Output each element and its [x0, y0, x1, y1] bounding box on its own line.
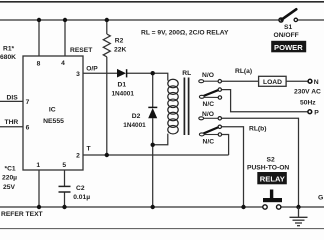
node junction ground rail earth: [296, 205, 300, 209]
relay coil RL: [168, 70, 191, 135]
node junction coil bottom D2: [151, 143, 155, 147]
svg-text:IC: IC: [49, 107, 56, 114]
label 230V AC 50Hz: [294, 89, 321, 107]
load box: [259, 76, 287, 86]
wire pin 5 to C2: [64, 170, 66, 186]
wire top +9V rail left segment: [0, 19, 279, 21]
svg-text:1: 1: [36, 162, 40, 169]
label R1 680K: [0, 46, 16, 61]
svg-text:0.01µ: 0.01µ: [73, 194, 90, 201]
node junction rail x107: [105, 18, 109, 22]
svg-text:P: P: [314, 109, 319, 116]
svg-text:50Hz: 50Hz: [300, 100, 316, 107]
svg-text:680K: 680K: [0, 54, 16, 61]
wire D1 cathode to relay coil top: [127, 73, 168, 80]
svg-text:C2: C2: [76, 185, 85, 192]
svg-text:RESET: RESET: [70, 47, 93, 54]
svg-text:RL: RL: [182, 70, 191, 77]
svg-text:D2: D2: [132, 113, 141, 120]
resistor R2 zigzag: [103, 34, 110, 57]
svg-text:DIS: DIS: [7, 95, 19, 102]
wire D2 top lead: [152, 73, 154, 107]
resistor R2 labels: [114, 38, 126, 54]
svg-text:G: G: [318, 195, 323, 202]
wire C2 to ground rail: [64, 192, 66, 207]
label C1 220u 25V: [2, 166, 17, 191]
wire DIS pin 7 stub: [0, 100, 23, 102]
wire D2 bottom lead to ground rail: [152, 118, 154, 207]
svg-text:1N4001: 1N4001: [123, 122, 146, 129]
wire top +9V rail right segment: [297, 19, 324, 21]
diode D1: [112, 69, 135, 97]
wire R2 top lead: [106, 20, 108, 34]
svg-text:7: 7: [26, 99, 30, 106]
wire ground rail right segment: [281, 206, 324, 208]
svg-text:N/C: N/C: [203, 101, 215, 108]
wire RL(a) N/O to LOAD: [221, 80, 258, 82]
node junction T line: [105, 153, 109, 157]
wire O/P line pin3 to D1: [83, 72, 117, 74]
svg-text:D1: D1: [118, 81, 127, 88]
node junction ground rail pin1: [37, 205, 41, 209]
svg-text:25V: 25V: [3, 184, 15, 191]
power badge: [271, 41, 306, 53]
svg-text:THR: THR: [5, 119, 19, 126]
wire relay coil bottom to D2 line: [153, 134, 168, 145]
node junction rail x39: [37, 18, 41, 22]
svg-text:RELAY: RELAY: [260, 175, 285, 184]
svg-text:POWER: POWER: [274, 43, 303, 52]
svg-text:S2: S2: [267, 157, 275, 164]
terminal N: [308, 79, 319, 86]
svg-text:RL(a): RL(a): [235, 68, 252, 75]
svg-text:1N4001: 1N4001: [112, 90, 135, 97]
wire T line pin2 to RL(b) N/C: [83, 154, 229, 156]
wire pin 4 to rail: [64, 20, 66, 56]
svg-text:PUSH-TO-ON: PUSH-TO-ON: [247, 165, 289, 172]
wire ground rail left segment: [0, 206, 263, 208]
svg-text:NE555: NE555: [43, 118, 64, 125]
svg-text:220µ: 220µ: [2, 175, 17, 182]
IC U1 NE555 body: [23, 56, 83, 170]
node junction ground rail D2: [151, 205, 155, 209]
svg-text:5: 5: [62, 162, 66, 169]
node junction rail x65: [63, 18, 67, 22]
wire pin 1 to ground rail: [38, 170, 40, 207]
push-button S2: [247, 157, 289, 210]
svg-text:22K: 22K: [114, 47, 126, 54]
svg-text:RL(b): RL(b): [249, 125, 266, 132]
node junction ground rail C2: [62, 205, 66, 209]
svg-text:REFER TEXT: REFER TEXT: [1, 211, 44, 218]
ground symbol: [290, 207, 308, 226]
svg-text:*C1: *C1: [5, 166, 16, 173]
wire THR pin 6 stub: [0, 126, 23, 128]
switch S1: [274, 9, 299, 39]
svg-text:4: 4: [61, 60, 65, 67]
svg-text:8: 8: [37, 61, 41, 68]
diode D2: [123, 107, 157, 128]
svg-text:O/P: O/P: [86, 66, 98, 73]
wire RL(b) pole down to ground rail: [221, 127, 243, 207]
svg-text:R2: R2: [115, 38, 124, 45]
svg-text:N/C: N/C: [203, 138, 215, 145]
svg-text:N/O: N/O: [202, 72, 214, 79]
svg-text:LOAD: LOAD: [263, 79, 282, 86]
terminal P: [308, 109, 319, 116]
wire RL(b) N/C down to T line: [222, 135, 229, 156]
svg-text:6: 6: [26, 125, 30, 132]
wire pin 8 to rail: [38, 20, 40, 56]
svg-text:RL = 9V, 200Ω, 2C/O RELAY: RL = 9V, 200Ω, 2C/O RELAY: [141, 29, 229, 36]
svg-text:R1*: R1*: [3, 46, 15, 53]
capacitor C2: [59, 185, 91, 201]
svg-text:230V AC: 230V AC: [294, 89, 321, 96]
node junction D1 D2 coil: [151, 71, 155, 75]
svg-text:N: N: [314, 79, 319, 86]
svg-text:3: 3: [76, 71, 80, 78]
node junction ground rail RL(b) pole: [241, 205, 245, 209]
wire R2 bottom lead down to T line: [106, 57, 108, 155]
wire RL(b) N/O down to ground node: [221, 118, 298, 207]
svg-text:ON/OFF: ON/OFF: [274, 32, 299, 39]
wire LOAD to terminal N: [286, 80, 308, 82]
relay contact RL(a): [199, 72, 222, 108]
svg-text:2: 2: [76, 152, 80, 159]
relay contact RL(b): [199, 111, 222, 145]
svg-text:S1: S1: [284, 24, 292, 31]
wire RL(a) pole to terminal P: [221, 90, 307, 112]
